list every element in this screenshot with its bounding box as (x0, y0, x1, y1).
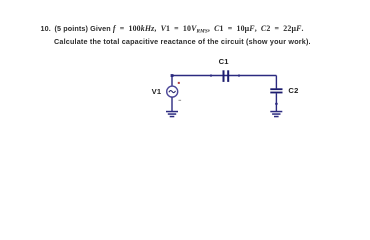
capacitor C2 (270, 88, 282, 93)
problem text line 1 (41, 25, 51, 33)
wire: top rail (172, 75, 276, 77)
node: junction on C2 ground lead (275, 103, 278, 106)
ground under C2 (270, 111, 282, 118)
label C2 (288, 87, 298, 95)
capacitor C1 (223, 70, 230, 82)
label C1 (219, 58, 229, 66)
node: C1 right pin (238, 74, 240, 76)
wire: C2 bottom lead (275, 93, 277, 111)
node: C1 left pin (210, 74, 212, 76)
wire: C2 top lead (275, 76, 277, 89)
problem text line 2 (54, 38, 311, 46)
ac source V1 (167, 82, 181, 101)
ground under V1 (166, 111, 178, 118)
label V1 (152, 88, 162, 96)
wire: V1 bottom lead (171, 97, 173, 111)
wire: V1 top lead (171, 76, 173, 87)
node: corner junction above V1 (171, 74, 174, 77)
